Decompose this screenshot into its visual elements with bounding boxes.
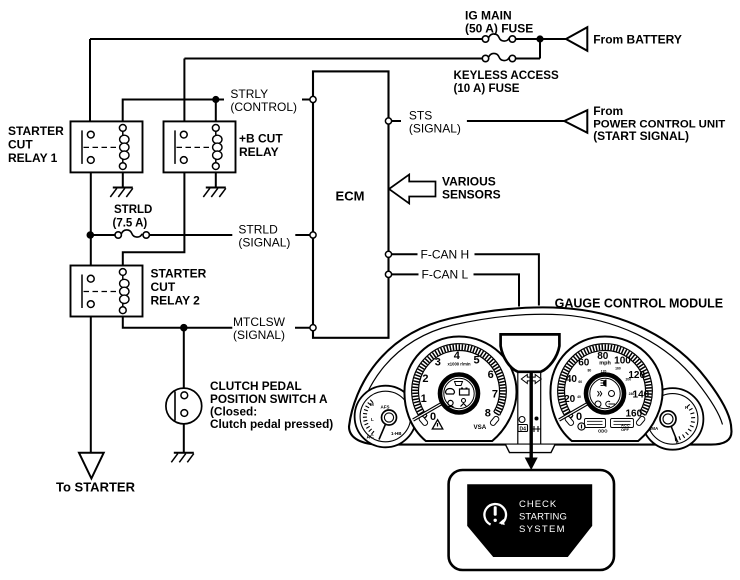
svg-text:CUT: CUT <box>8 138 33 152</box>
svg-text:x1000 r/min: x1000 r/min <box>447 362 470 367</box>
svg-text:(10 A) FUSE: (10 A) FUSE <box>454 82 520 95</box>
svg-text:STRLD: STRLD <box>238 223 278 237</box>
svg-text:4: 4 <box>454 350 461 362</box>
svg-text:RELAY 2: RELAY 2 <box>151 294 201 308</box>
svg-text:160: 160 <box>615 367 621 371</box>
svg-text:CUT: CUT <box>151 280 176 294</box>
svg-text:VARIOUS: VARIOUS <box>442 175 496 189</box>
svg-text:VSA: VSA <box>474 424 487 431</box>
svg-text:(SIGNAL): (SIGNAL) <box>233 328 285 342</box>
svg-text:7: 7 <box>492 389 498 401</box>
svg-text:+B CUT: +B CUT <box>239 132 283 146</box>
svg-text:AC: AC <box>367 435 375 441</box>
svg-text:From: From <box>593 104 623 118</box>
svg-text:To STARTER: To STARTER <box>56 480 136 495</box>
svg-text:1-HB: 1-HB <box>391 431 402 436</box>
svg-text:IG MAIN: IG MAIN <box>465 9 512 23</box>
svg-text:60: 60 <box>578 358 590 369</box>
svg-text:F-CAN L: F-CAN L <box>422 268 469 282</box>
svg-text:F-CAN H: F-CAN H <box>421 248 470 262</box>
svg-text:MTCLSW: MTCLSW <box>233 315 286 329</box>
svg-text:(50 A) FUSE: (50 A) FUSE <box>465 22 533 36</box>
svg-text:SYSTEM: SYSTEM <box>519 524 566 535</box>
svg-text:140: 140 <box>633 390 650 401</box>
svg-text:F: F <box>676 440 679 445</box>
svg-text:AFS: AFS <box>381 405 390 410</box>
svg-text:(START SIGNAL): (START SIGNAL) <box>593 129 689 143</box>
svg-text:3: 3 <box>435 357 441 369</box>
svg-text:120: 120 <box>601 370 607 374</box>
svg-text:(7.5 A): (7.5 A) <box>113 218 148 230</box>
svg-text:1: 1 <box>421 393 427 405</box>
svg-text:100: 100 <box>614 355 631 366</box>
svg-text:RELAY: RELAY <box>239 145 279 159</box>
svg-text:STARTING: STARTING <box>519 512 567 523</box>
svg-text:GAUGE CONTROL MODULE: GAUGE CONTROL MODULE <box>555 297 724 311</box>
svg-text:OFF: OFF <box>621 427 630 432</box>
svg-text:STRLD: STRLD <box>114 204 152 216</box>
svg-text:Clutch pedal pressed): Clutch pedal pressed) <box>210 417 333 431</box>
svg-text:D4: D4 <box>520 427 527 433</box>
svg-text:L: L <box>371 417 374 422</box>
svg-text:STARTER: STARTER <box>151 267 207 281</box>
svg-text:mph: mph <box>599 361 611 367</box>
svg-text:40: 40 <box>566 374 578 385</box>
svg-text:8: 8 <box>485 408 491 420</box>
svg-text:(SIGNAL): (SIGNAL) <box>238 235 290 249</box>
svg-text:40: 40 <box>577 395 581 399</box>
svg-text:(CONTROL): (CONTROL) <box>230 100 297 114</box>
svg-text:M: M <box>370 402 374 407</box>
svg-text:60: 60 <box>578 380 582 384</box>
svg-text:From BATTERY: From BATTERY <box>593 33 682 47</box>
svg-text:H: H <box>685 405 688 410</box>
svg-text:80: 80 <box>588 368 592 372</box>
svg-text:20: 20 <box>564 394 576 405</box>
svg-text:240: 240 <box>629 392 635 396</box>
svg-text:(SIGNAL): (SIGNAL) <box>409 121 461 135</box>
svg-text:2: 2 <box>422 373 428 385</box>
svg-text:ECM: ECM <box>336 189 365 204</box>
svg-text:SENSORS: SENSORS <box>442 188 501 202</box>
svg-text:6: 6 <box>488 369 494 381</box>
svg-text:0: 0 <box>576 411 582 423</box>
svg-text:0: 0 <box>430 411 436 423</box>
svg-text:STS: STS <box>409 109 432 123</box>
svg-text:STARTER: STARTER <box>8 124 64 138</box>
svg-text:200: 200 <box>625 377 631 381</box>
svg-text:CHECK: CHECK <box>519 499 557 510</box>
svg-text:STRLY: STRLY <box>230 87 268 101</box>
svg-text:ODO: ODO <box>598 429 608 434</box>
svg-text:5: 5 <box>473 354 479 366</box>
svg-text:KEYLESS ACCESS: KEYLESS ACCESS <box>454 69 559 82</box>
svg-text:RELAY 1: RELAY 1 <box>8 151 58 165</box>
